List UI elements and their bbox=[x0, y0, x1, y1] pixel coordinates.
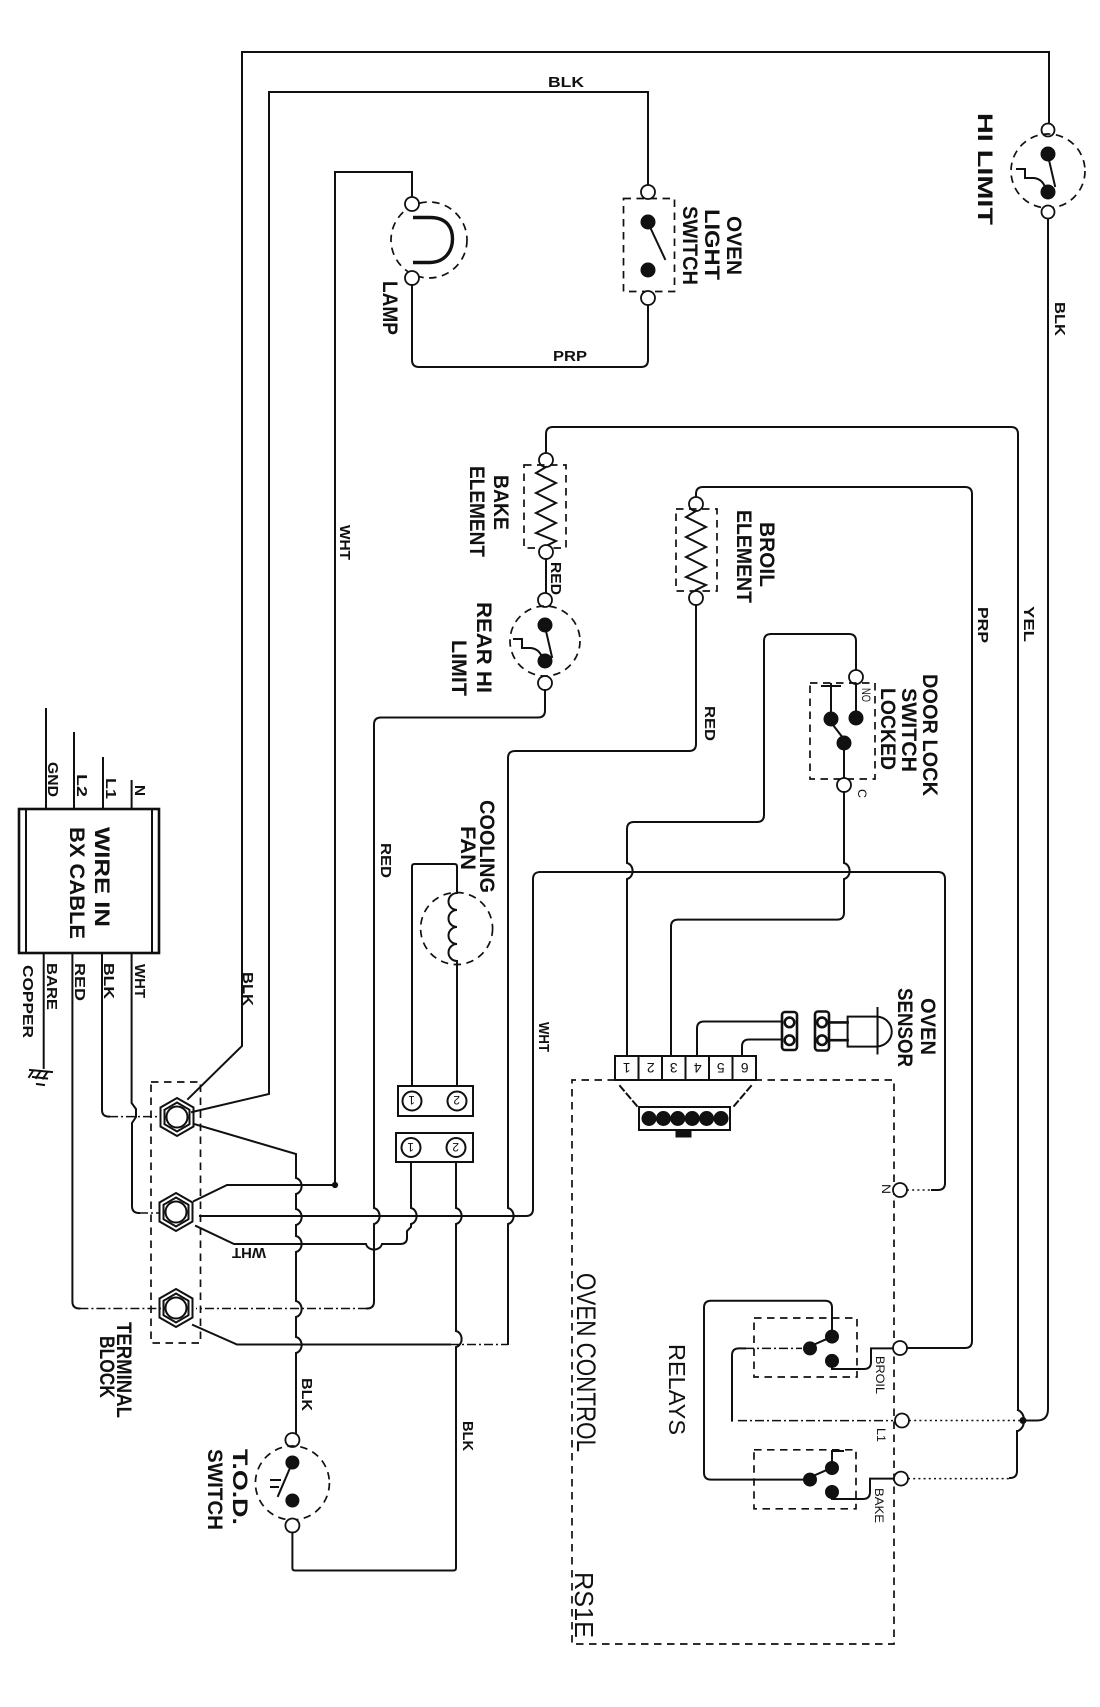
svg-text:RED: RED bbox=[377, 843, 394, 878]
svg-text:SWITCH: SWITCH bbox=[678, 206, 701, 285]
svg-text:RED: RED bbox=[701, 706, 718, 741]
wire: nut2 upper diagonal to lamp neutral junction bbox=[194, 1185, 335, 1201]
svg-text:WIRE IN: WIRE IN bbox=[90, 827, 113, 927]
wire: BLK long vertical from hi-limit to L1 junction bbox=[1026, 219, 1048, 1421]
terminal block: dashed outline bbox=[151, 1082, 201, 1343]
svg-text:NO: NO bbox=[859, 688, 873, 702]
node: junction lamp-neutral with nut2 line bbox=[332, 1182, 337, 1187]
svg-text:T.O.D.: T.O.D. bbox=[228, 1449, 251, 1525]
relay 2: upper contact bbox=[826, 1462, 839, 1475]
door lock switch: left contact bbox=[824, 712, 838, 726]
terminal nut 1 bbox=[161, 1098, 194, 1136]
control plug: contact dots bbox=[642, 1112, 728, 1126]
label DOOR LOCK SWITCH LOCKED bbox=[876, 674, 941, 796]
svg-text:L2: L2 bbox=[73, 774, 90, 797]
hi-limit: lever bbox=[1049, 160, 1055, 186]
relay 2: lower contact bbox=[826, 1486, 839, 1499]
svg-text:WHT: WHT bbox=[131, 964, 148, 998]
svg-text:SENSOR: SENSOR bbox=[893, 988, 916, 1067]
svg-text:LIMIT: LIMIT bbox=[447, 640, 470, 696]
svg-text:FAN: FAN bbox=[456, 826, 479, 870]
hi-limit: upper contact bbox=[1041, 147, 1055, 161]
relay 2: lever bbox=[813, 1469, 829, 1476]
hi-limit: top terminal bbox=[1042, 124, 1055, 137]
svg-text:SWITCH: SWITCH bbox=[203, 1449, 226, 1530]
svg-text:L1: L1 bbox=[874, 1428, 888, 1442]
wire: nut3 to RED riser dash-dot bbox=[196, 1308, 367, 1310]
BX cable box: inner double border lines bbox=[26, 809, 152, 953]
cooling fan: top bar and left wire bbox=[412, 864, 457, 1086]
label WIRE IN BX CABLE bbox=[65, 827, 113, 939]
wire: left vertical from y92 down to nut1 bbox=[192, 92, 269, 1112]
wire: YEL jog at L1 junction, continue to BAKE terminal bbox=[1010, 1410, 1024, 1478]
svg-text:BLK: BLK bbox=[239, 972, 256, 1006]
label REAR HI LIMIT bbox=[447, 602, 495, 696]
TOD switch: upper contact bbox=[286, 1456, 299, 1469]
oven sensor: left connector block bbox=[782, 1012, 797, 1050]
oven sensor: bulb dome bbox=[878, 1017, 892, 1047]
svg-text:2: 2 bbox=[452, 1140, 459, 1154]
relay 2: upper contact hook bbox=[832, 1451, 843, 1462]
svg-text:PRP: PRP bbox=[974, 607, 991, 643]
oven light switch: bottom terminal bbox=[641, 291, 655, 305]
svg-text:2: 2 bbox=[647, 1060, 655, 1076]
label OVEN SENSOR bbox=[893, 988, 939, 1067]
lead WHT to nut2 (with jog at BLK crossing) bbox=[132, 953, 139, 1213]
hi-limit: dashed envelope bbox=[1011, 134, 1085, 208]
hi-limit: thermostat symbol bbox=[1017, 169, 1045, 187]
svg-text:WHT: WHT bbox=[535, 1022, 552, 1052]
TOD switch: bottom terminal bbox=[285, 1519, 299, 1533]
svg-text:RED: RED bbox=[547, 562, 564, 595]
wire: hi-limit top drop bbox=[1048, 52, 1050, 123]
svg-text:BLK: BLK bbox=[459, 1421, 476, 1451]
rear hi limit: bottom terminal bbox=[538, 676, 552, 690]
rear hi limit: lower contact bbox=[538, 654, 552, 668]
TOD switch: lever bbox=[278, 1468, 290, 1496]
wire: broil bottom RED to x508 drop bbox=[508, 605, 696, 1344]
lamp: filament C shape bbox=[413, 218, 453, 263]
fan connector 2: body bbox=[396, 1133, 473, 1162]
TOD switch: top terminal bbox=[285, 1433, 299, 1447]
svg-text:HI LIMIT: HI LIMIT bbox=[973, 113, 996, 225]
wire: L1 dash-dot bus to relay commons bbox=[745, 1347, 802, 1349]
svg-text:C: C bbox=[855, 789, 869, 798]
label TERMINAL BLOCK bbox=[95, 1322, 135, 1418]
svg-text:BLOCK: BLOCK bbox=[95, 1336, 118, 1398]
oven light switch: top terminal bbox=[641, 185, 655, 199]
door lock switch: common contact bbox=[837, 736, 851, 750]
wire: TOD bottom to rail y1570 bbox=[292, 1533, 299, 1571]
svg-text:BARE: BARE bbox=[43, 963, 60, 1010]
lead BLK to nut1 bbox=[102, 953, 109, 1117]
wire: rear hi limit bottom to RED left drop x374 bbox=[367, 690, 545, 1309]
bake element: resistor zigzag bbox=[536, 467, 556, 546]
svg-text:6: 6 bbox=[741, 1060, 749, 1076]
svg-text:BX CABLE: BX CABLE bbox=[65, 827, 88, 939]
rear hi limit: top terminal bbox=[538, 593, 552, 607]
door lock switch: dashed body bbox=[810, 683, 875, 779]
rear hi limit: dashed envelope bbox=[510, 606, 580, 676]
svg-text:BAKE: BAKE bbox=[872, 1488, 886, 1523]
wire: dotted link to N terminal bbox=[907, 1189, 932, 1191]
svg-text:BROIL: BROIL bbox=[755, 522, 778, 587]
label COOLING FAN bbox=[456, 800, 498, 893]
wire: long WHT horizontal y872 from x533 to x945 bbox=[540, 872, 945, 1190]
svg-text:PRP: PRP bbox=[553, 348, 587, 365]
rear hi limit: lever bbox=[546, 631, 552, 657]
relay 1: lower contact bbox=[826, 1354, 839, 1367]
terminal L1 bbox=[895, 1414, 909, 1428]
TOD switch: dashed envelope bbox=[255, 1446, 329, 1520]
lead L2 bbox=[73, 733, 75, 809]
cooling fan: coil bbox=[449, 893, 458, 1086]
label BAKE ELEMENT bbox=[465, 466, 512, 557]
wire: bake bottom to rear hi limit bbox=[545, 559, 547, 593]
svg-text:1: 1 bbox=[407, 1140, 414, 1154]
relay 2 (bake): dashed body bbox=[754, 1450, 856, 1509]
relay 1: lever bbox=[813, 1338, 829, 1345]
svg-text:DOOR LOCK: DOOR LOCK bbox=[918, 674, 941, 796]
svg-text:BAKE: BAKE bbox=[489, 475, 512, 530]
wire: oven light switch top lead bbox=[647, 92, 649, 185]
fan connector 1: pin 2 bbox=[448, 1092, 467, 1111]
oven light switch: dashed body bbox=[624, 199, 675, 292]
broil element: bottom terminal bbox=[689, 591, 703, 605]
terminal N on control box bbox=[893, 1183, 907, 1197]
lead L1 bbox=[102, 758, 104, 809]
relay 1: common contact bbox=[804, 1342, 817, 1355]
lamp: dashed envelope circle bbox=[391, 202, 467, 278]
svg-text:3: 3 bbox=[670, 1060, 678, 1076]
relay 1: dashed body bbox=[754, 1318, 857, 1377]
svg-text:N: N bbox=[879, 1184, 893, 1194]
svg-text:RED: RED bbox=[71, 963, 88, 1001]
oven light switch: lever bbox=[650, 227, 665, 259]
svg-text:SWITCH: SWITCH bbox=[897, 688, 920, 772]
cooling fan: dashed envelope bbox=[421, 893, 493, 965]
ground symbol bbox=[29, 1070, 52, 1085]
bake element: dashed body bbox=[524, 465, 566, 548]
svg-text:L1: L1 bbox=[102, 778, 119, 799]
lead N bbox=[131, 781, 133, 809]
fan connector 2: pin 1 bbox=[402, 1138, 421, 1157]
broil element: top feed wire to PRP drop bbox=[696, 487, 972, 1348]
oven light switch: lower contact bbox=[641, 263, 655, 277]
control plug: body bbox=[639, 1107, 730, 1130]
svg-text:BROIL: BROIL bbox=[873, 1356, 887, 1394]
oven sensor: right connector block bbox=[815, 1012, 829, 1051]
relay 2: lower contact to BAKE terminal bbox=[832, 1479, 893, 1499]
wire: top L1 feed BLK (outer) bbox=[242, 51, 1049, 53]
svg-text:LOCKED: LOCKED bbox=[876, 688, 899, 770]
svg-text:2: 2 bbox=[453, 1093, 460, 1107]
terminal nut 3 bbox=[160, 1289, 193, 1327]
svg-text:GND: GND bbox=[44, 762, 61, 797]
rear hi limit: upper contact bbox=[538, 618, 552, 632]
oven sensor: bulb seam bbox=[877, 1008, 879, 1054]
oven sensor: links to bulb bbox=[829, 1022, 848, 1040]
wire: bake element top feed (y=427) to YEL drop bbox=[546, 427, 1018, 1410]
svg-text:LIGHT: LIGHT bbox=[700, 209, 723, 280]
svg-text:BLK: BLK bbox=[100, 963, 117, 999]
wire: nut3 lower diagonal and y1345 rail to broil RED drop bbox=[193, 1325, 450, 1345]
bake element: bottom terminal bbox=[539, 545, 553, 559]
broil element: resistor zigzag bbox=[686, 511, 706, 590]
fan connector 2: pin 2 bbox=[447, 1138, 466, 1157]
broil element: dashed body bbox=[676, 509, 717, 591]
svg-text:BLK: BLK bbox=[1051, 302, 1068, 336]
hi-limit: bottom terminal bbox=[1042, 206, 1055, 219]
door lock switch: lever bbox=[833, 725, 843, 738]
svg-text:OVEN: OVEN bbox=[722, 216, 745, 275]
svg-text:BLK: BLK bbox=[298, 1378, 315, 1411]
lead BARE COPPER to ground bbox=[43, 953, 45, 1068]
wire: L1 terminal dotted to junction bbox=[909, 1420, 1026, 1422]
control connector: pin boxes 1-6 bbox=[615, 1056, 756, 1080]
door lock switch: feed wire from NO terminal loop bbox=[627, 634, 856, 1056]
svg-text:RS1E: RS1E bbox=[569, 1572, 599, 1638]
fan connector 1: body bbox=[398, 1086, 473, 1116]
wire: BAKE terminal dotted to YEL bbox=[908, 1478, 1010, 1480]
lead GND bbox=[45, 709, 47, 809]
wire: fan connector2 pin2 down to TOD bottom rail bbox=[296, 1162, 462, 1571]
rear hi limit: thermostat symbol bbox=[514, 639, 542, 657]
terminal BROIL bbox=[893, 1341, 907, 1355]
svg-text:N: N bbox=[131, 785, 148, 796]
terminal BAKE bbox=[894, 1472, 908, 1486]
relay 1: lower contact to BROIL terminal bbox=[832, 1348, 893, 1369]
wire: fan connector2 pin1 down, hop y1216, left along y1244 bbox=[196, 1162, 417, 1250]
wire: outer left vertical BLK down to terminal block bbox=[188, 52, 242, 1099]
oven light switch: upper contact bbox=[641, 215, 655, 229]
hi-limit: lower contact bbox=[1041, 185, 1055, 199]
lamp loop: top lead to long WHT vertical bbox=[335, 172, 412, 1183]
door lock switch: right contact under NO bbox=[849, 711, 863, 725]
terminal nut 2 bbox=[160, 1193, 193, 1231]
svg-text:ELEMENT: ELEMENT bbox=[732, 510, 755, 603]
svg-text:BLK: BLK bbox=[548, 74, 584, 91]
lead RED to nut3 bbox=[72, 953, 79, 1309]
svg-text:1: 1 bbox=[623, 1060, 631, 1076]
door lock switch: common lead to C terminal bbox=[843, 750, 845, 778]
control plug: key tab bbox=[676, 1130, 691, 1137]
wire: door lock C down, hop y872, left to pin3 bbox=[671, 792, 850, 1056]
svg-text:1: 1 bbox=[408, 1093, 415, 1107]
label OVEN LIGHT SWITCH bbox=[678, 206, 745, 285]
BX cable box: outer body bbox=[19, 809, 159, 953]
svg-text:RELAYS: RELAYS bbox=[664, 1344, 690, 1435]
svg-text:OVEN: OVEN bbox=[916, 998, 939, 1055]
lamp: top terminal bbox=[405, 197, 419, 211]
oven sensor: bulb body bbox=[848, 1017, 878, 1047]
broil element: top terminal bbox=[689, 497, 703, 511]
label BROIL ELEMENT bbox=[732, 510, 778, 603]
wire: nut1 lower diagonal to TOD feed x296 bbox=[194, 1124, 302, 1433]
fan connector 1: pin 1 bbox=[403, 1092, 422, 1111]
svg-text:WHT: WHT bbox=[232, 1244, 266, 1261]
wire: second top line BLK to oven light switch bbox=[269, 91, 648, 93]
oven sensor: wire pin4 to connector bbox=[697, 1022, 781, 1057]
door lock switch: C terminal bbox=[837, 778, 851, 792]
TOD switch: F mark bbox=[271, 1480, 280, 1487]
relay 1: upper contact bbox=[826, 1330, 839, 1343]
wire: WHT vertical x533 down and long y1215 to nut2 bbox=[200, 872, 540, 1216]
svg-text:OVEN CONTROL: OVEN CONTROL bbox=[571, 1273, 601, 1452]
svg-text:REAR HI: REAR HI bbox=[472, 602, 495, 693]
relay 2: common contact bbox=[804, 1473, 817, 1486]
svg-text:LAMP: LAMP bbox=[378, 281, 401, 335]
lamp: bottom terminal bbox=[405, 271, 419, 285]
node: L1 junction bbox=[1020, 1418, 1026, 1424]
wire: lamp bottom to PRP line to switch bottom bbox=[412, 285, 648, 367]
svg-text:WHT: WHT bbox=[336, 525, 353, 560]
door lock switch: left stationary lead bbox=[822, 684, 856, 712]
svg-text:COPPER: COPPER bbox=[19, 965, 36, 1038]
oven sensor: wire pin6 to connector bbox=[742, 1040, 781, 1057]
TOD switch: lower contact bbox=[286, 1494, 299, 1507]
relay 1 (broil): feed loop from L1 bus bbox=[704, 1301, 832, 1480]
svg-text:5: 5 bbox=[717, 1060, 725, 1076]
label T.O.D. SWITCH bbox=[203, 1449, 251, 1530]
bake element: top terminal bbox=[539, 453, 553, 467]
oven control: dashed enclosure bbox=[572, 1080, 894, 1644]
door lock switch: NO terminal bbox=[849, 670, 863, 684]
svg-text:ELEMENT: ELEMENT bbox=[465, 466, 488, 557]
control plug: funnel sides bbox=[620, 1086, 751, 1106]
svg-text:4: 4 bbox=[694, 1060, 702, 1076]
svg-text:YEL: YEL bbox=[1020, 606, 1037, 642]
